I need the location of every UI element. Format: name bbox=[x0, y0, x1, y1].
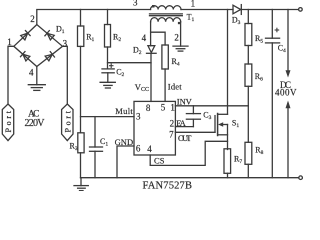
transistor S1 MOSFET bbox=[215, 10, 228, 150]
svg-text:1: 1 bbox=[191, 0, 196, 8]
svg-text:FAN7527B: FAN7527B bbox=[143, 181, 193, 191]
svg-text:2: 2 bbox=[174, 32, 179, 42]
transformer T1 core bbox=[150, 14, 183, 16]
svg-text:EA: EA bbox=[176, 118, 186, 128]
svg-text:5: 5 bbox=[161, 103, 166, 113]
wire Vcc vertical to pin8 bbox=[150, 54, 152, 101]
wire Vcc horizontal bbox=[108, 62, 152, 64]
wire secondary pin4 down bbox=[150, 22, 152, 46]
wire node3 to Port2 bbox=[63, 46, 68, 104]
svg-text:R5: R5 bbox=[255, 34, 263, 45]
svg-text:S1: S1 bbox=[232, 118, 239, 128]
wire top rail right segment bbox=[241, 9, 298, 11]
wire Idet R4 to pin5 bbox=[164, 69, 166, 101]
wire jog to R4 bbox=[151, 32, 166, 45]
wire GND pin6 bbox=[117, 146, 134, 178]
svg-text:R8: R8 bbox=[255, 146, 263, 157]
svg-text:C4: C4 bbox=[278, 43, 286, 54]
svg-text:GND: GND bbox=[115, 137, 134, 147]
resistor R6 bbox=[245, 64, 252, 86]
resistor R4 bbox=[162, 45, 168, 69]
wire secondary pin2 to ground bbox=[180, 22, 182, 46]
svg-text:1: 1 bbox=[170, 103, 175, 113]
wire Mult pin3 bbox=[81, 116, 135, 118]
svg-text:D3: D3 bbox=[232, 15, 241, 26]
ground below C2 bbox=[100, 73, 115, 88]
svg-text:C1: C1 bbox=[100, 137, 108, 148]
resistor R1 bbox=[78, 10, 84, 47]
bridge rectifier diamond wires bbox=[14, 25, 63, 67]
svg-text:6: 6 bbox=[136, 143, 141, 153]
svg-text:D1: D1 bbox=[56, 25, 65, 36]
wire top rail left segment bbox=[37, 10, 151, 25]
svg-text:4: 4 bbox=[142, 33, 147, 43]
svg-text:8: 8 bbox=[146, 103, 151, 113]
svg-text:220V: 220V bbox=[25, 118, 46, 129]
wire R1 bottom to Mult node bbox=[80, 46, 82, 132]
svg-text:3: 3 bbox=[133, 0, 138, 8]
transformer T1 secondary phase dot bbox=[178, 22, 180, 24]
wire OUT pin7 to gate bbox=[175, 131, 215, 133]
svg-text:Port: Port bbox=[4, 110, 13, 132]
node output - terminal bbox=[299, 176, 303, 180]
wire EA pin2 bbox=[175, 126, 193, 128]
wire CS pin4 bbox=[150, 141, 227, 165]
svg-text:3: 3 bbox=[136, 112, 141, 122]
svg-text:R4: R4 bbox=[172, 57, 180, 68]
svg-text:2: 2 bbox=[170, 118, 175, 128]
diode D1a bridge top-left bbox=[20, 31, 30, 41]
diode D2 bbox=[147, 46, 157, 54]
svg-text:T1: T1 bbox=[187, 12, 195, 23]
svg-text:Mult: Mult bbox=[115, 106, 133, 116]
wire node1 to Port1 bbox=[8, 46, 14, 104]
svg-text:VCC: VCC bbox=[135, 82, 149, 93]
svg-text:R2: R2 bbox=[113, 33, 121, 44]
capacitor C4 output bbox=[266, 10, 280, 178]
diode D3 boost output bbox=[233, 5, 241, 15]
resistor R5 bbox=[245, 24, 252, 46]
svg-text:CS: CS bbox=[154, 155, 165, 165]
diode D1d bridge bottom-right bbox=[45, 52, 55, 62]
svg-text:2: 2 bbox=[30, 14, 35, 24]
svg-text:4: 4 bbox=[29, 68, 34, 78]
svg-text:OUT: OUT bbox=[178, 133, 192, 143]
ground at bridge node 4 bbox=[28, 67, 45, 91]
svg-text:C2: C2 bbox=[116, 68, 124, 79]
ground at secondary pin 2 bbox=[173, 46, 188, 51]
svg-text:3: 3 bbox=[63, 38, 68, 48]
node output + terminal bbox=[299, 8, 303, 12]
capacitor C3 bbox=[186, 106, 200, 127]
wire R5 to R6 bbox=[247, 46, 249, 65]
terminal Port1 bbox=[2, 104, 13, 141]
svg-text:D2: D2 bbox=[133, 45, 142, 56]
wire bottom ground rail bbox=[81, 177, 299, 179]
svg-text:7: 7 bbox=[169, 129, 174, 139]
svg-text:400V: 400V bbox=[275, 87, 297, 97]
capacitor C2 electrolytic bbox=[102, 69, 114, 73]
resistor R8 bbox=[245, 142, 252, 164]
wire R6 to R8 with INV tap bbox=[247, 86, 249, 142]
svg-text:R6: R6 bbox=[255, 72, 263, 83]
resistor R7 source sense bbox=[224, 149, 231, 178]
svg-text:Idet: Idet bbox=[168, 82, 182, 92]
IC U1 FAN7527B body bbox=[134, 101, 175, 155]
divider chain wire bbox=[247, 10, 249, 24]
svg-text:1: 1 bbox=[7, 37, 12, 47]
svg-text:R7: R7 bbox=[234, 155, 242, 166]
transformer T1 secondary winding bbox=[151, 18, 181, 22]
svg-text:INV: INV bbox=[177, 97, 193, 107]
svg-text:R1: R1 bbox=[86, 32, 94, 43]
resistor R3 bbox=[78, 133, 84, 178]
diode D1b bridge top-right bbox=[45, 31, 55, 41]
resistor R2 bbox=[105, 10, 111, 48]
annotation DC arrow down bbox=[286, 10, 291, 78]
annotation DC arrow up bbox=[286, 101, 291, 178]
wire top rail mid segment bbox=[181, 9, 233, 11]
plus sign C2 bbox=[109, 63, 114, 68]
ground at bottom rail left bbox=[74, 178, 88, 191]
terminal Port2 bbox=[62, 104, 73, 141]
diode D1c bridge bottom-left bbox=[21, 52, 31, 62]
transformer T1 primary phase dot bbox=[152, 5, 155, 8]
svg-text:C3: C3 bbox=[203, 110, 211, 121]
capacitor C1 bbox=[90, 117, 103, 178]
wire R2 bottom to Vcc node bbox=[107, 47, 109, 69]
svg-text:4: 4 bbox=[147, 144, 152, 154]
svg-text:Port: Port bbox=[63, 110, 72, 132]
transformer T1 primary winding bbox=[151, 6, 182, 10]
plus sign C4 bbox=[275, 28, 280, 33]
wire R8 to rail bbox=[247, 164, 249, 177]
svg-text:R3: R3 bbox=[70, 142, 78, 153]
wire INV pin1 to divider bbox=[175, 105, 248, 107]
